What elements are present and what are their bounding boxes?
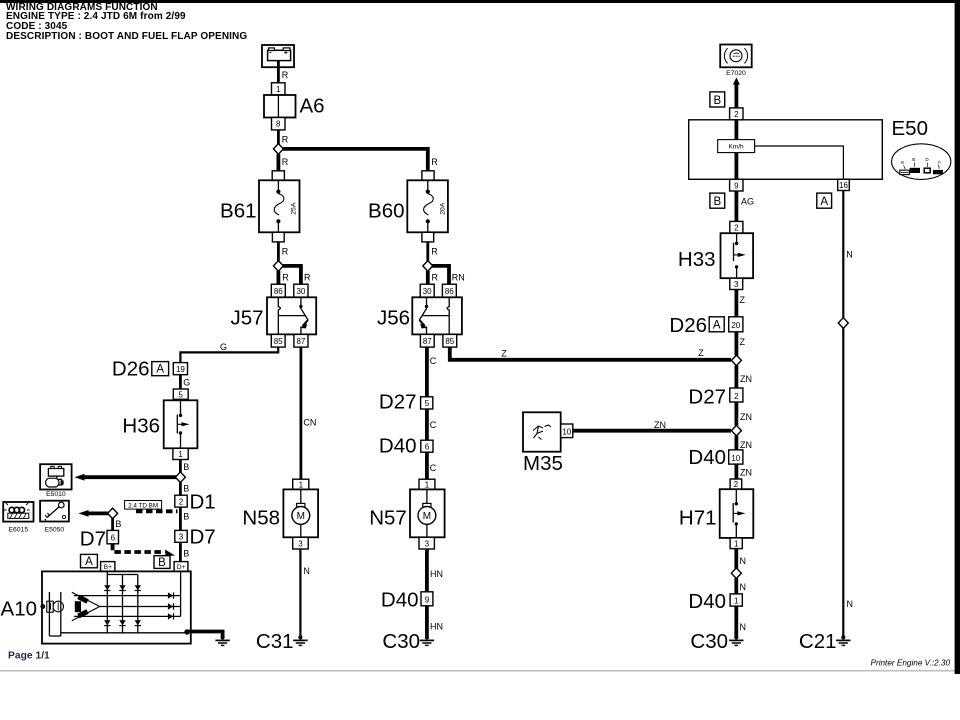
svg-text:N: N: [740, 622, 747, 632]
svg-text:B: B: [158, 557, 166, 569]
svg-text:10: 10: [562, 427, 571, 436]
svg-text:30: 30: [423, 287, 432, 296]
svg-text:C30: C30: [690, 630, 728, 653]
svg-text:3: 3: [425, 539, 430, 548]
svg-text:H36: H36: [122, 415, 160, 438]
svg-text:G: G: [220, 342, 227, 352]
svg-text:19: 19: [176, 365, 185, 374]
svg-text:R: R: [282, 247, 289, 257]
svg-text:85: 85: [445, 337, 454, 346]
svg-text:B: B: [115, 519, 121, 529]
svg-text:86: 86: [445, 287, 454, 296]
svg-text:Z: Z: [740, 337, 746, 347]
svg-text:Km/h: Km/h: [729, 144, 745, 151]
svg-text:2: 2: [734, 110, 739, 119]
svg-text:D27: D27: [379, 391, 417, 414]
svg-text:RN: RN: [452, 273, 465, 283]
svg-text:10: 10: [731, 454, 740, 463]
svg-text:E6015: E6015: [8, 526, 28, 533]
svg-text:N: N: [740, 556, 747, 566]
svg-text:D26: D26: [669, 314, 707, 337]
svg-text:B: B: [912, 157, 915, 162]
svg-text:ZN: ZN: [740, 468, 752, 478]
svg-text:HN: HN: [430, 622, 443, 632]
svg-text:D+: D+: [177, 564, 186, 571]
svg-text:J57: J57: [230, 307, 263, 330]
svg-text:Printer Engine V.:2.30: Printer Engine V.:2.30: [871, 659, 951, 668]
svg-text:6: 6: [425, 443, 430, 452]
svg-text:E50: E50: [892, 117, 928, 140]
svg-text:1: 1: [299, 480, 304, 489]
svg-text:B: B: [713, 95, 721, 107]
svg-text:C: C: [430, 420, 437, 430]
svg-text:H71: H71: [679, 507, 717, 530]
svg-text:20A: 20A: [440, 202, 447, 215]
svg-text:D7: D7: [80, 527, 106, 550]
svg-text:2: 2: [734, 480, 739, 489]
svg-text:3: 3: [298, 539, 303, 548]
svg-text:9: 9: [734, 181, 739, 190]
svg-text:B61: B61: [220, 200, 256, 223]
svg-text:HN: HN: [430, 569, 443, 579]
svg-text:85: 85: [274, 337, 283, 346]
svg-text:Z: Z: [501, 349, 507, 359]
svg-text:D27: D27: [688, 386, 726, 409]
svg-text:D1: D1: [190, 491, 216, 514]
svg-text:E5050: E5050: [45, 526, 65, 533]
svg-text:R: R: [282, 135, 289, 145]
svg-text:A: A: [156, 364, 164, 376]
svg-text:87: 87: [423, 337, 432, 346]
svg-text:87: 87: [296, 337, 305, 346]
svg-text:Z: Z: [740, 295, 746, 305]
svg-text:D7: D7: [190, 526, 216, 549]
svg-text:C21: C21: [799, 630, 837, 653]
svg-text:30: 30: [296, 287, 305, 296]
svg-text:6: 6: [111, 534, 116, 543]
svg-text:D40: D40: [381, 588, 419, 611]
svg-text:Page 1/1: Page 1/1: [8, 651, 50, 662]
svg-text:B: B: [713, 196, 721, 208]
svg-text:ZN: ZN: [740, 440, 752, 450]
svg-text:N: N: [303, 566, 310, 576]
svg-text:A10: A10: [1, 598, 37, 621]
svg-text:H33: H33: [678, 248, 716, 271]
svg-text:R: R: [431, 157, 438, 167]
svg-text:D40: D40: [688, 446, 726, 469]
svg-text:3: 3: [734, 280, 739, 289]
svg-text:1: 1: [425, 480, 430, 489]
svg-text:N: N: [740, 582, 747, 592]
svg-text:20: 20: [731, 321, 740, 330]
svg-text:25A: 25A: [291, 202, 298, 215]
svg-text:R: R: [282, 273, 289, 283]
svg-text:A: A: [85, 556, 93, 568]
svg-text:ZN: ZN: [654, 420, 666, 430]
svg-text:M: M: [297, 511, 305, 522]
svg-text:5: 5: [178, 390, 183, 399]
svg-text:AG: AG: [741, 197, 754, 207]
svg-text:86: 86: [274, 287, 283, 296]
svg-text:D26: D26: [112, 358, 150, 381]
svg-text:ZN: ZN: [740, 374, 752, 384]
svg-text:B: B: [183, 549, 189, 559]
svg-text:C30: C30: [382, 630, 420, 653]
svg-text:B: B: [183, 462, 189, 472]
svg-text:R: R: [282, 70, 289, 80]
svg-text:E7020: E7020: [726, 70, 746, 77]
svg-text:M35: M35: [523, 452, 563, 475]
svg-text:C: C: [430, 356, 437, 366]
svg-text:B+: B+: [104, 564, 112, 571]
svg-text:R: R: [431, 247, 438, 257]
svg-text:R: R: [304, 273, 311, 283]
svg-text:R: R: [432, 273, 439, 283]
svg-text:A: A: [820, 196, 828, 208]
svg-text:ZN: ZN: [740, 412, 752, 422]
svg-text:1: 1: [276, 85, 281, 94]
svg-text:5: 5: [425, 399, 430, 408]
svg-text:J56: J56: [377, 307, 410, 330]
svg-text:G: G: [183, 378, 190, 388]
svg-text:1: 1: [734, 539, 739, 548]
svg-text:B: B: [183, 484, 189, 494]
svg-text:2: 2: [179, 497, 184, 506]
svg-text:2.4 TD BM: 2.4 TD BM: [128, 502, 158, 509]
svg-text:1: 1: [178, 450, 183, 459]
svg-text:C31: C31: [256, 630, 294, 653]
svg-text:Z: Z: [698, 348, 704, 358]
svg-text:R: R: [282, 157, 289, 167]
svg-text:N: N: [846, 250, 853, 260]
svg-text:D40: D40: [379, 434, 417, 457]
svg-text:3: 3: [179, 533, 184, 542]
svg-text:2: 2: [734, 392, 739, 401]
svg-text:E5010: E5010: [46, 491, 66, 498]
svg-text:C: C: [430, 463, 437, 473]
svg-text:A6: A6: [300, 95, 325, 118]
svg-text:M: M: [423, 511, 431, 522]
svg-text:A: A: [713, 320, 721, 332]
svg-text:N: N: [847, 599, 854, 609]
svg-text:16: 16: [839, 181, 848, 190]
svg-text:N58: N58: [242, 507, 280, 530]
svg-text:D40: D40: [688, 590, 726, 613]
svg-text:E: E: [901, 160, 904, 165]
svg-text:1: 1: [734, 596, 739, 605]
svg-text:CN: CN: [303, 418, 316, 428]
svg-text:8: 8: [276, 120, 281, 129]
svg-text:2: 2: [734, 224, 739, 233]
svg-text:B: B: [183, 512, 189, 522]
svg-text:B60: B60: [368, 200, 404, 223]
svg-text:N57: N57: [369, 507, 407, 530]
svg-text:9: 9: [425, 596, 430, 605]
